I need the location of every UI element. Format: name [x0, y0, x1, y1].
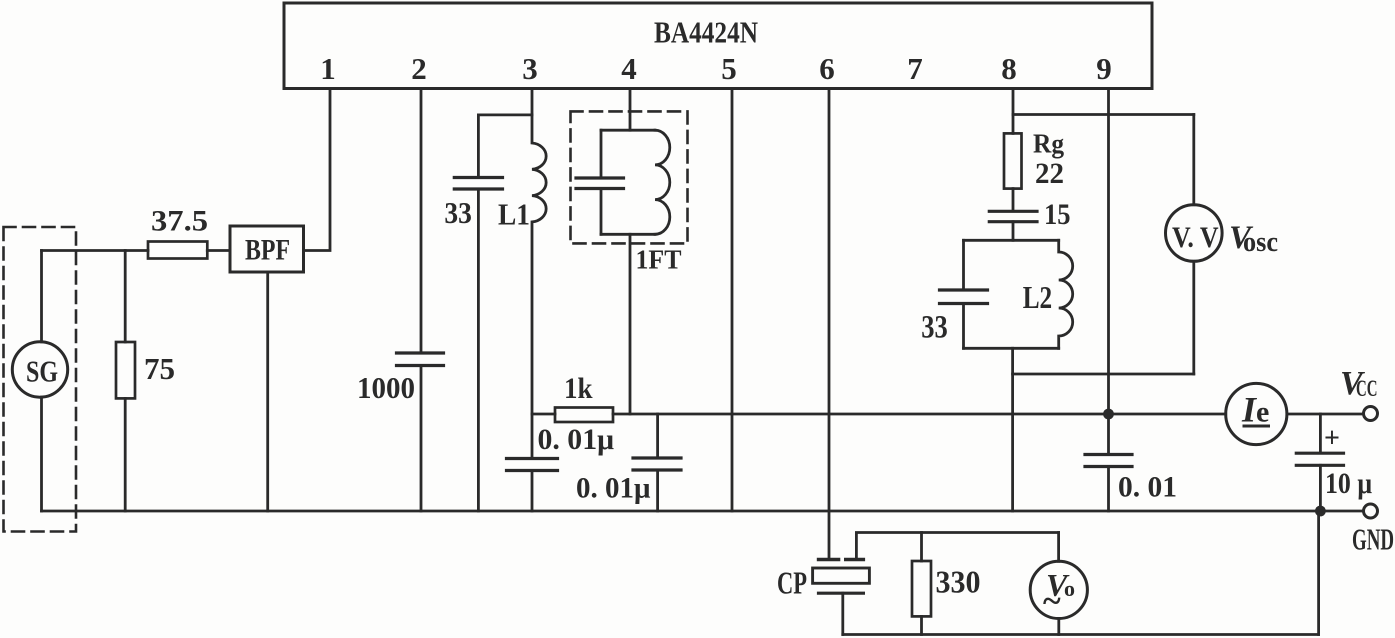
node junction dot pin9/main line — [1103, 409, 1114, 420]
svg-text:V. V: V. V — [1172, 221, 1219, 254]
wire output loop bottom rail — [843, 633, 1319, 636]
wire pin8 stub — [1012, 89, 1015, 134]
wire ground rail — [42, 510, 1364, 513]
resistor 75 — [116, 342, 135, 398]
wire CP bottom leg — [841, 593, 844, 634]
wire pin3 stub with L1 coil — [532, 89, 546, 459]
node SG dashed box — [4, 227, 77, 532]
wire Vo meter bottom leg — [1057, 619, 1060, 635]
resistor 330 — [912, 561, 931, 616]
svg-text:+: + — [1324, 423, 1340, 454]
svg-text:3: 3 — [522, 51, 538, 86]
svg-text:L2: L2 — [1023, 279, 1052, 315]
ceramic filter CP bottom electrode — [819, 592, 864, 595]
wire L2 tank top rail — [964, 239, 1059, 242]
capacitor 10u top leg — [1319, 414, 1322, 453]
svg-text:330: 330 — [936, 564, 981, 600]
ceramic filter CP left electrode — [819, 558, 839, 561]
wire BPF bottom leg — [266, 272, 269, 511]
wire pin5 stub — [731, 89, 734, 512]
wire 1FT bottom rail — [601, 233, 655, 236]
inductor 1FT coil — [655, 130, 670, 234]
wire 330 to bottom rail — [920, 616, 923, 634]
op-amp U1 BA4424N IC box — [284, 3, 1152, 89]
wire pin6 stub — [828, 89, 831, 559]
capacitor 0.01 plates — [1085, 453, 1132, 456]
svg-text:~: ~ — [1043, 583, 1061, 620]
resistor 37.5 — [148, 242, 207, 259]
svg-text:22: 22 — [1035, 157, 1064, 190]
svg-text:SG: SG — [26, 354, 58, 389]
wire CP right electrode stub — [856, 533, 1058, 559]
svg-text:BA4424N: BA4424N — [654, 15, 758, 50]
capacitor 0.01u no.2 plates — [633, 456, 681, 459]
filter BPF box — [230, 226, 304, 272]
svg-text:0. 01μ: 0. 01μ — [538, 423, 615, 456]
ceramic filter CP right electrode — [846, 558, 864, 561]
wire pin8 top branch to Vosc meter — [1013, 113, 1194, 116]
svg-text:1: 1 — [320, 51, 336, 86]
wire Vosc meter upper leg — [1192, 115, 1195, 205]
wire 1FT top rail — [601, 129, 655, 132]
capacitor 1FT plates — [576, 176, 624, 179]
node junction dot 10u/ground rail — [1315, 506, 1326, 517]
wire pin9 stub — [1107, 89, 1110, 455]
capacitor 15 plates — [989, 210, 1037, 213]
svg-text:7: 7 — [907, 51, 923, 86]
svg-text:e: e — [1256, 396, 1269, 429]
wire L2 tank bottom rail — [964, 347, 1059, 350]
inductor L2 coil — [1059, 240, 1073, 348]
terminal GND — [1364, 504, 1378, 518]
capacitor 0.01u no.2 top leg — [656, 414, 659, 458]
svg-text:37.5: 37.5 — [151, 205, 208, 238]
svg-text:1FT: 1FT — [636, 245, 682, 275]
capacitor 33 (right) upper leg — [962, 240, 965, 289]
wire output loop right riser — [1317, 511, 1320, 635]
capacitor 33 (left) plates — [454, 176, 502, 179]
svg-text:5: 5 — [721, 51, 737, 86]
svg-text:1k: 1k — [564, 372, 593, 405]
resistor 330 top leg — [920, 533, 923, 562]
wire pin2 stub — [420, 89, 423, 354]
wire input horizontal — [42, 249, 149, 252]
wire 1FT cap lower leg — [600, 189, 603, 235]
capacitor 33 (right) lower leg — [962, 304, 965, 349]
svg-text:1000: 1000 — [357, 370, 415, 405]
svg-text:CP: CP — [777, 565, 807, 601]
wire resistor to BPF — [207, 249, 230, 252]
wire pin4 lower leg — [629, 234, 632, 414]
capacitor 10u plates — [1296, 452, 1343, 455]
wire 10u to rail — [1319, 465, 1322, 511]
svg-text:9: 9 — [1096, 51, 1112, 86]
svg-text:6: 6 — [819, 51, 835, 86]
svg-text:33: 33 — [444, 195, 472, 230]
capacitor 33 (right) plates — [940, 288, 988, 291]
signal generator SG — [12, 342, 67, 397]
wire Rg to 15 cap — [1012, 189, 1015, 211]
svg-text:0. 01μ: 0. 01μ — [576, 472, 651, 505]
voltmeter V.V — [1166, 205, 1223, 262]
capacitor 1000 top leg — [420, 352, 423, 355]
wire 1k output line — [613, 413, 1226, 416]
capacitor 1FT left leg — [600, 130, 603, 177]
wire pin1 stub — [304, 89, 331, 251]
wire main line y414 — [532, 413, 555, 416]
svg-text:10 μ: 10 μ — [1325, 467, 1372, 500]
capacitor 0.01u no.1 plates — [507, 457, 558, 460]
svg-text:osc: osc — [1243, 227, 1278, 258]
svg-text:CC: CC — [1356, 376, 1378, 401]
voltmeter Vo — [1030, 561, 1087, 618]
svg-text:o: o — [1064, 576, 1075, 601]
wire 0.01u no.1 to rail — [531, 471, 534, 512]
transformer 1FT dashed box — [571, 111, 688, 243]
wire SG bottom leg — [40, 397, 43, 511]
svg-text:15: 15 — [1044, 198, 1071, 231]
svg-text:75: 75 — [144, 351, 175, 386]
wire pin4 stub — [629, 89, 632, 131]
wire Vo meter top leg — [1057, 533, 1060, 562]
resistor 75 branch wire — [124, 251, 127, 343]
wire 1000 to rail — [420, 366, 423, 512]
svg-text:8: 8 — [1001, 51, 1017, 86]
wire pin3 branch to 33 cap — [478, 115, 532, 177]
svg-text:4: 4 — [621, 51, 637, 86]
wire 0.01u no.2 to rail — [656, 470, 659, 511]
terminal Vcc — [1364, 407, 1378, 421]
svg-text:0. 01: 0. 01 — [1118, 471, 1177, 504]
ceramic filter CP body — [813, 568, 870, 583]
svg-text:BPF: BPF — [245, 234, 290, 267]
svg-text:L1: L1 — [498, 197, 530, 232]
wire 33 cap to rail — [477, 189, 480, 511]
svg-text:33: 33 — [921, 310, 948, 346]
capacitor 1000 plates — [397, 351, 444, 354]
wire L2 bottom leg to rail — [1011, 348, 1014, 511]
wire Vosc meter lower leg — [1192, 261, 1195, 374]
wire 75 to ground rail — [124, 398, 127, 511]
label Ie underline — [1243, 425, 1271, 428]
wire Vosc bottom branch — [1013, 373, 1194, 376]
svg-text:GND: GND — [1352, 522, 1394, 557]
wire 15 cap to L2 tank — [1012, 222, 1015, 241]
wire SG top leg — [40, 251, 43, 342]
resistor Rg — [1004, 133, 1022, 188]
wire 0.01 to rail — [1107, 467, 1110, 512]
svg-text:Rg: Rg — [1033, 129, 1064, 159]
ammeter Ie — [1226, 383, 1287, 444]
svg-text:2: 2 — [411, 51, 427, 86]
resistor 1k — [555, 408, 613, 423]
wire Ie to Vcc terminal — [1287, 413, 1364, 416]
